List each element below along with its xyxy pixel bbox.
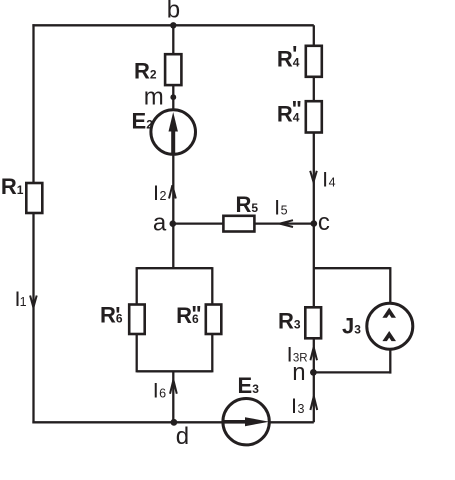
svg-text:b: b [167,0,180,23]
svg-text:': ' [115,303,120,328]
svg-text:": " [292,96,302,121]
svg-text:m: m [144,83,164,110]
svg-text:c: c [318,209,330,236]
svg-text:d: d [176,423,189,450]
svg-text:': ' [292,42,297,67]
svg-text:a: a [153,209,167,236]
svg-text:": " [191,302,201,327]
